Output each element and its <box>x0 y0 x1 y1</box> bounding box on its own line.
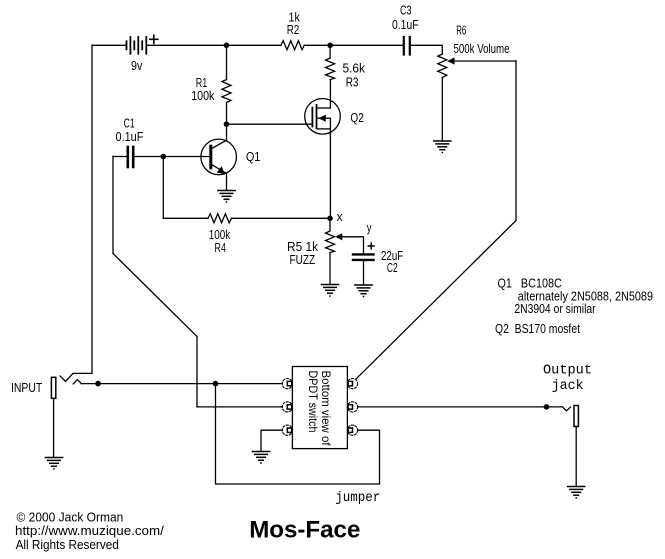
transistor Q1 circle <box>201 139 237 175</box>
svg-text:9v: 9v <box>131 59 143 73</box>
ground below R5 <box>321 285 338 294</box>
resistor R2 1k <box>281 41 304 50</box>
Q1 emitter diagonal <box>212 165 226 173</box>
DPDT switch box <box>292 367 347 449</box>
wire to switch pin 2 <box>197 406 282 408</box>
input jack plate <box>51 377 55 398</box>
node junction at R3 top <box>327 43 333 49</box>
svg-text:Q1 BC108C: Q1 BC108C <box>498 277 562 291</box>
wire diagonal to switch pin2 branch <box>113 254 197 337</box>
svg-text:Mos-Face: Mos-Face <box>249 517 360 544</box>
resistor R3 5.6k <box>326 58 335 80</box>
capacitor C2 22uF <box>353 254 374 260</box>
svg-text:Q1: Q1 <box>246 150 260 164</box>
wire jumper loop <box>216 384 380 484</box>
svg-text:Output: Output <box>543 364 592 379</box>
wire base junction down to R4 <box>162 157 164 219</box>
Q2 source internal vertical <box>329 118 331 134</box>
wire R1 to gate node <box>226 103 228 125</box>
wire C3 to R6 <box>411 45 442 54</box>
svg-text:C1: C1 <box>124 117 135 131</box>
svg-text:Bottom view of: Bottom view of <box>319 371 333 447</box>
switch pin hole L1 <box>287 381 291 385</box>
resistor R1 100k <box>222 80 231 103</box>
Q2 channel bar <box>316 105 318 128</box>
battery 9v <box>127 37 147 54</box>
R6 wiper arrow <box>447 57 454 64</box>
wire C2 to ground <box>363 261 365 285</box>
svg-text:INPUT: INPUT <box>11 381 43 395</box>
wire switch pin R2 to output <box>358 406 563 408</box>
svg-text:500k Volume: 500k Volume <box>454 42 510 56</box>
ground below R6 <box>434 141 451 150</box>
wire switch pin L3 to ground <box>261 430 282 451</box>
wire vertical to pin2 level <box>196 337 198 407</box>
Q2 body stub <box>317 117 330 119</box>
svg-text:C2: C2 <box>387 261 398 275</box>
ground below switch <box>252 452 269 461</box>
svg-text:y: y <box>367 221 372 235</box>
wire C1 left branch down <box>112 157 114 254</box>
wire to R4 <box>163 217 208 219</box>
svg-text:DPDT switch: DPDT switch <box>306 371 320 433</box>
wire left rail to input jack contact <box>60 373 92 381</box>
ground below Q1 <box>218 191 235 200</box>
output jack tip contact <box>563 407 571 411</box>
resistor R4 100k <box>208 214 232 223</box>
svg-text:5.6k: 5.6k <box>343 62 366 76</box>
node x junction <box>327 216 333 222</box>
C2 plus sign <box>368 243 374 249</box>
svg-text:FUZZ: FUZZ <box>290 253 316 267</box>
switch pin hole R1 <box>348 381 352 385</box>
switch pin L2 <box>282 402 292 412</box>
Q2 source stub <box>317 128 330 130</box>
svg-text:0.1uF: 0.1uF <box>116 130 144 144</box>
transistor Q2 circle <box>305 99 341 135</box>
Q2 drain stub <box>317 107 330 109</box>
switch pin hole R3 <box>348 428 352 432</box>
wire C1 to base junction <box>135 156 164 158</box>
capacitor C1 left wire <box>113 156 126 158</box>
svg-text:R5 1k: R5 1k <box>287 240 319 254</box>
Q2 body arrow <box>318 115 326 122</box>
Q1 collector diagonal <box>212 140 226 148</box>
svg-text:C3: C3 <box>400 4 412 18</box>
switch pin hole L2 <box>287 405 291 409</box>
output jack plate <box>574 406 578 427</box>
wire top rail battery to R2 <box>147 44 281 46</box>
wire gate node to Q2 gate <box>227 123 312 125</box>
svg-text:jumper: jumper <box>335 491 380 506</box>
resistor R1 100k top wire <box>226 45 228 79</box>
wire input to switch pin 1 <box>81 383 282 385</box>
resistor R5 1k <box>326 221 335 253</box>
switch pin R2 <box>347 402 357 412</box>
svg-text:x: x <box>337 210 344 224</box>
wire R5 wiper to C2 <box>342 237 364 253</box>
wire R3 to Q2 drain <box>329 80 331 108</box>
svg-text:© 2000 Jack Orman: © 2000 Jack Orman <box>17 511 124 525</box>
svg-text:100k: 100k <box>209 228 231 242</box>
svg-text:100k: 100k <box>191 89 215 103</box>
svg-text:R4: R4 <box>215 241 226 255</box>
node dot input wire jumper tap <box>213 381 219 387</box>
resistor R6 500k <box>438 54 447 78</box>
svg-text:R3: R3 <box>346 76 359 90</box>
wire top rail left of battery <box>92 44 126 46</box>
svg-text:R1: R1 <box>196 76 208 90</box>
wire Q2 source to node x <box>329 134 331 218</box>
svg-text:http://www.muzique.com/: http://www.muzique.com/ <box>15 524 164 538</box>
svg-text:R2: R2 <box>287 23 300 37</box>
wire input jack to ground <box>53 398 55 457</box>
battery plus sign <box>150 35 158 43</box>
switch pin R1 <box>347 379 357 389</box>
switch pin R3 <box>347 425 357 435</box>
node dot on output wire <box>544 404 550 410</box>
node junction R1 bottom gate <box>224 121 230 127</box>
svg-text:R6: R6 <box>456 24 466 38</box>
R5 wiper arrow <box>335 233 342 240</box>
svg-text:Q2 BS170 mosfet: Q2 BS170 mosfet <box>495 322 580 336</box>
wire output jack to ground <box>575 427 577 487</box>
switch pin L1 <box>282 379 357 436</box>
wire long diagonal to switch pin <box>356 221 516 379</box>
node dot on input wire <box>95 381 101 387</box>
switch pin hole R2 <box>348 405 352 409</box>
ground below input jack <box>45 458 62 467</box>
input jack tip contact <box>73 380 81 384</box>
wire R6 wiper to right vertical <box>454 60 516 62</box>
node junction at R1 top <box>224 43 230 49</box>
switch pin L3 <box>282 425 292 435</box>
svg-text:0.1uF: 0.1uF <box>392 18 419 32</box>
svg-text:2N3904 or similar: 2N3904 or similar <box>514 302 595 316</box>
svg-text:jack: jack <box>552 379 584 394</box>
wire gate node down to Q1 collector <box>226 124 228 140</box>
wire R6 bottom to ground <box>441 78 443 142</box>
ground below C2 <box>355 285 372 294</box>
resistor R3 5.6k top wire <box>329 45 331 58</box>
Q1 emitter arrow <box>217 166 225 174</box>
Q2 gate bar <box>311 108 313 127</box>
capacitor C1 0.1uF <box>128 147 133 167</box>
ground below output jack <box>568 487 585 496</box>
Q1 base bar <box>209 146 212 168</box>
wire R5 to ground <box>329 253 331 285</box>
wire R2 to C3 <box>304 44 402 46</box>
wire left rail battery minus <box>91 45 93 373</box>
svg-text:Q2: Q2 <box>350 111 364 125</box>
wire right vertical from wiper <box>515 61 517 221</box>
switch pin hole L3 <box>287 428 291 432</box>
svg-text:All Rights Reserved: All Rights Reserved <box>16 538 119 552</box>
wire R4 to node x <box>232 217 331 219</box>
capacitor C3 0.1uF <box>404 37 410 55</box>
node junction C1 base <box>161 154 167 160</box>
wire Q1 emitter to ground <box>226 173 228 190</box>
Q1 base wire <box>163 156 209 158</box>
